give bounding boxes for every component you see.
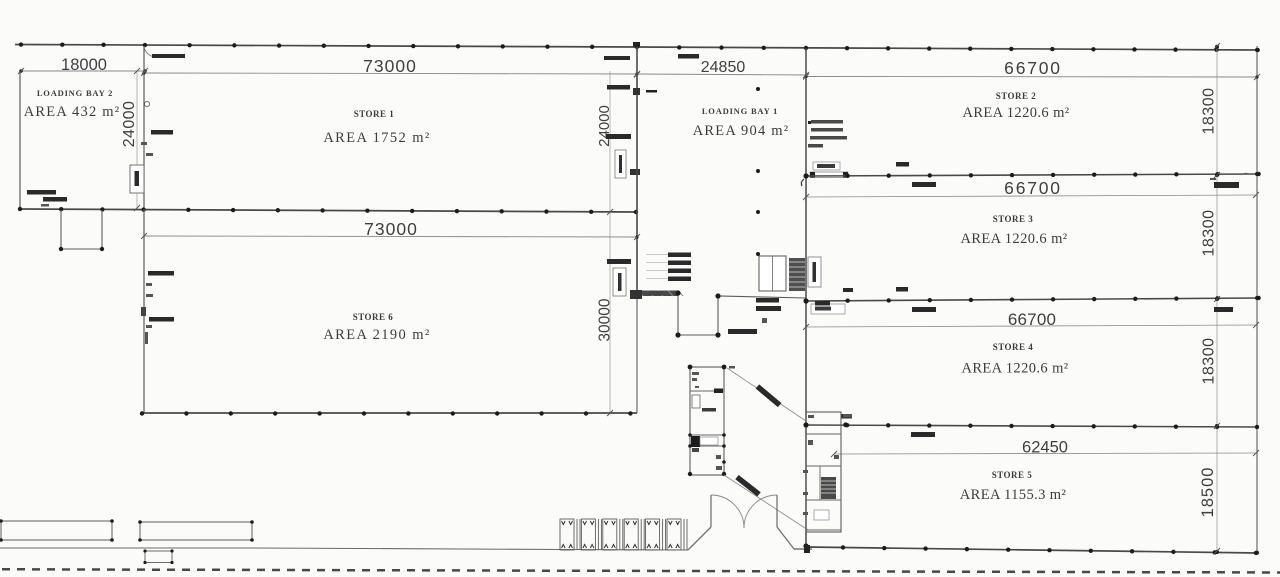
mark 5-shape	[633, 88, 640, 95]
blob lb1 left small	[607, 259, 631, 264]
svg-text:18500: 18500	[1199, 467, 1217, 518]
label blob lb1 left 2	[607, 85, 630, 90]
svg-text:STORE 1: STORE 1	[354, 109, 395, 119]
vertical dim ticks	[134, 68, 140, 74]
parking rect 2	[140, 522, 252, 540]
dim 24850 line	[637, 74, 806, 75]
small cross mark	[762, 318, 767, 323]
room block 1 outer	[690, 367, 724, 475]
label blob lb1 left 3	[606, 134, 631, 139]
store3/4 divider wall	[806, 298, 1257, 301]
wall between loading bay 2 and store 1	[143, 46, 145, 209]
column dots store2/3	[804, 174, 808, 178]
svg-text:AREA 1220.6 m²: AREA 1220.6 m²	[962, 105, 1069, 121]
store 1 right dim line 24000	[609, 71, 611, 212]
room1 small rect	[692, 395, 700, 408]
outer top wall	[15, 45, 1258, 51]
door symbol on divider left end	[810, 172, 848, 178]
diagonal D1 room1 to wall	[727, 368, 806, 421]
entrance ramp left	[688, 527, 711, 550]
junction blob	[630, 169, 640, 175]
diagonal D1 hatch label	[756, 384, 782, 407]
svg-text:STORE 4: STORE 4	[993, 342, 1034, 352]
room1 door dots	[688, 433, 692, 437]
parking rect 1	[1, 521, 112, 540]
column dots store4/5	[804, 423, 808, 427]
right outer wall x=1257	[1256, 46, 1258, 552]
lb1 right 4-row text labels	[811, 120, 843, 124]
ramp hatched block	[789, 258, 805, 291]
store5 bottom wall	[806, 547, 1258, 553]
lb2 bottom step notch	[61, 210, 102, 249]
blob on top of lb1 wall	[633, 42, 640, 47]
x=806 wall dots	[803, 173, 808, 178]
thin dim line left 24000	[136, 71, 138, 208]
tick right of room1	[729, 366, 735, 369]
column dots store1 bottom	[18, 207, 22, 211]
room2 hatch block	[821, 477, 836, 499]
white box vertical text lb1 left	[613, 268, 626, 296]
labels under lb1 bottom wall	[756, 298, 779, 303]
wall below junction x=637	[636, 294, 638, 413]
room1 label blob	[702, 408, 716, 412]
room1 internal line	[690, 390, 724, 392]
row3 label blobs	[841, 414, 852, 419]
dim 66700 row1 line	[806, 195, 1256, 197]
svg-text:STORE 3: STORE 3	[993, 214, 1034, 224]
lb2 bottom labels	[27, 190, 56, 195]
label blob near top wall	[152, 54, 185, 58]
lb1 left rows of hatched labels	[668, 253, 691, 258]
column dots store6 bottom	[140, 411, 144, 415]
svg-text:62450: 62450	[1022, 439, 1068, 457]
loading bay 2 left wall	[19, 71, 21, 209]
loading bay1 bottom L-wall hatched segment	[637, 291, 678, 297]
ground line bottom left	[0, 548, 688, 550]
white label box below rows	[813, 162, 840, 170]
room2 marks	[808, 415, 814, 418]
svg-text:AREA 2190 m²: AREA 2190 m²	[323, 327, 430, 343]
ramp structure white rect	[759, 256, 786, 291]
svg-text:24000: 24000	[596, 105, 613, 147]
svg-text:LOADING BAY 1: LOADING BAY 1	[702, 106, 778, 116]
row2 label blobs	[843, 288, 853, 292]
dim 73000 top line	[144, 73, 637, 74]
svg-text:73000: 73000	[363, 56, 417, 76]
svg-text:AREA 904 m²: AREA 904 m²	[693, 123, 790, 139]
label blob store1 left wall	[151, 130, 173, 135]
svg-text:AREA 1220.6 m²: AREA 1220.6 m²	[960, 231, 1067, 247]
svg-text:STORE 2: STORE 2	[996, 91, 1037, 101]
svg-text:18000: 18000	[61, 56, 107, 74]
loading bay 1 center column dots	[756, 87, 760, 91]
dimension 18000 line	[21, 70, 145, 72]
white box vertical text right of ramp	[808, 257, 821, 287]
room1 double wall doors	[690, 434, 724, 436]
entrance right jamb	[776, 495, 778, 527]
svg-text:66700: 66700	[1004, 178, 1062, 198]
store 6 top dim 73000 line	[144, 236, 637, 237]
loading bay 1 left wall	[636, 47, 638, 294]
store2 top dim 66700 line	[806, 76, 1257, 79]
svg-text:STORE 5: STORE 5	[992, 470, 1033, 480]
entrance threshold	[794, 548, 812, 550]
column dots store5 bottom	[841, 545, 845, 549]
store 1 bottom wall	[20, 209, 637, 212]
svg-text:AREA 1752 m²: AREA 1752 m²	[323, 130, 430, 146]
svg-text:AREA 1220.6 m²: AREA 1220.6 m²	[961, 361, 1068, 377]
diagonal D2 to entrance	[724, 475, 808, 530]
dim 66700 row2 line	[806, 325, 1256, 327]
room2 internal walls	[806, 433, 841, 435]
tiny marks on wall	[141, 142, 147, 145]
column dots store3/4	[804, 299, 808, 303]
svg-text:30000: 30000	[597, 298, 614, 341]
store2/3 divider wall	[806, 174, 1257, 176]
door arc top of wall x=144	[144, 46, 156, 57]
svg-text:73000: 73000	[364, 219, 418, 239]
svg-text:18300: 18300	[1201, 88, 1218, 135]
small box below parking rect 2	[145, 551, 172, 563]
room1 bottom marks	[716, 455, 721, 459]
room2 left wall ticks	[803, 470, 808, 473]
junction dark blob	[630, 290, 642, 299]
label blob lb1 left	[604, 56, 630, 60]
door frame rect on wall x=144	[130, 165, 144, 193]
bottom dashed road line	[2, 569, 1280, 572]
dimension end ticks	[18, 68, 24, 74]
svg-text:STORE 6: STORE 6	[353, 312, 394, 322]
L-wall down segment	[678, 293, 806, 335]
stall row	[560, 519, 574, 550]
x=1257 wall dots	[1255, 48, 1259, 52]
store 6 bottom wall	[142, 412, 637, 414]
entrance door arc right	[744, 495, 777, 528]
right section left wall x=806	[805, 48, 807, 546]
curl mark under door symbol	[801, 179, 804, 186]
entrance ramp right	[777, 527, 794, 549]
room1 marks top	[692, 372, 699, 375]
room block 2 outer	[806, 412, 841, 532]
column dots top wall	[19, 42, 23, 46]
dim 62450 line	[834, 453, 1256, 454]
svg-text:AREA 1155.3 m²: AREA 1155.3 m²	[960, 487, 1067, 503]
room2 small label box	[814, 510, 829, 520]
x=1217 dim crossings dots	[1215, 45, 1219, 49]
store6 left wall blob labels	[148, 271, 174, 276]
svg-text:18300: 18300	[1201, 338, 1218, 385]
diagonal D2 hatch label	[735, 475, 760, 497]
svg-text:66700: 66700	[1008, 310, 1056, 329]
small circle on wall	[144, 101, 149, 106]
entrance door arc left	[711, 495, 744, 528]
vertical dim 30000 line	[609, 212, 611, 413]
svg-text:18300: 18300	[1201, 210, 1218, 257]
entrance left jamb	[710, 495, 712, 527]
store 6 left wall	[143, 209, 145, 413]
svg-text:66700: 66700	[1004, 58, 1062, 78]
row1 label blobs	[896, 162, 909, 167]
right section dim line x=1217	[1216, 45, 1218, 551]
svg-text:24000: 24000	[121, 101, 138, 148]
svg-text:AREA 432 m²: AREA 432 m²	[24, 104, 121, 120]
white label box right of store1	[615, 150, 626, 178]
svg-text:LOADING BAY 2: LOADING BAY 2	[37, 88, 113, 98]
svg-text:24850: 24850	[701, 59, 746, 76]
store4/5 divider wall	[806, 425, 1257, 427]
squiggle right end row1	[1241, 173, 1249, 175]
